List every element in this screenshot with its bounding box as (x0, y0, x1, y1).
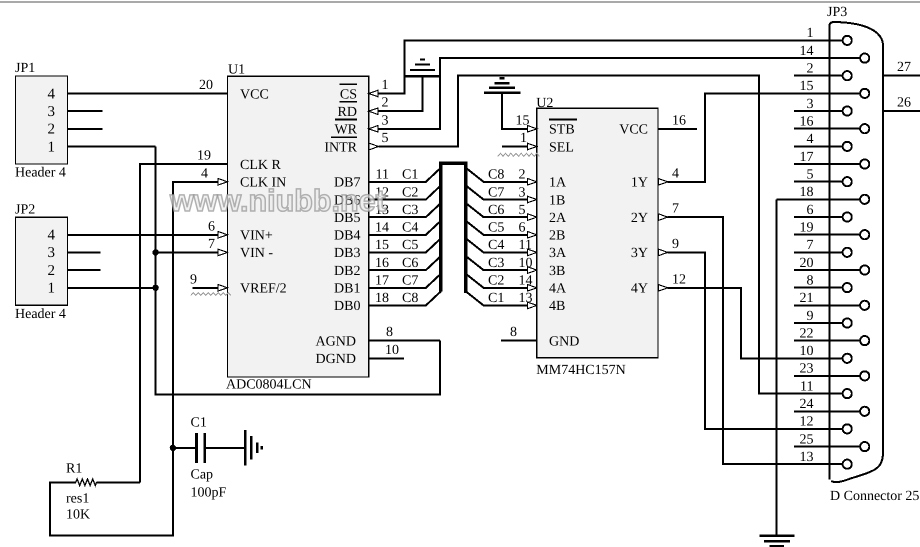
wire JP3 pin 24 stub (794, 410, 861, 412)
input arrow at U2 SEL (527, 143, 537, 150)
svg-text:10K: 10K (66, 508, 90, 523)
wire JP3 pin 21 stub (794, 304, 861, 306)
wire VIN- from junction to U1 pin7 (156, 251, 218, 253)
svg-text:1B: 1B (549, 193, 565, 208)
wire AGND pin8 to analog ground return (369, 340, 441, 342)
wire JP3 pin18 ground vertical down to earth (775, 199, 777, 535)
svg-text:2A: 2A (549, 211, 567, 226)
svg-text:STB: STB (549, 123, 575, 138)
svg-text:12: 12 (800, 415, 814, 430)
wire JP2 pin2 stub (68, 269, 101, 271)
svg-text:2B: 2B (549, 229, 565, 244)
JP3 pin 2 circle (843, 71, 852, 80)
wire C1 left lead (173, 447, 195, 449)
svg-text:DB4: DB4 (334, 229, 360, 244)
svg-text:Header 4: Header 4 (15, 307, 66, 322)
svg-text:3: 3 (48, 104, 56, 120)
svg-text:19: 19 (800, 221, 814, 236)
wire bus to U2 4B pin13 (net C1) (466, 291, 527, 305)
svg-text:VREF/2: VREF/2 (240, 282, 287, 297)
junction dot at C1 tap on CLK IN line (170, 445, 176, 451)
bus (thick) between U1 data pins and U2 inputs (441, 163, 466, 293)
JP3 pin 3 circle (843, 106, 852, 115)
wire WR net: U1 pin3 up and over to JP3 pin14 (378, 58, 860, 129)
wire INTR net: U1 pin5 over to JP3 pin11 (379, 76, 843, 394)
wire bus to U2 1A pin2 (net C8) (466, 168, 527, 182)
wire JP3 pin 25 stub (794, 446, 861, 448)
svg-text:CS: CS (340, 87, 357, 102)
JP3 pin 22 circle (860, 336, 869, 345)
svg-text:C6: C6 (402, 256, 418, 271)
wire JP3 pin 22 stub (794, 340, 861, 342)
svg-text:INTR: INTR (324, 140, 357, 155)
JP3 pin 17 circle (860, 159, 869, 168)
wire U2 GND pin8 stub (501, 340, 537, 342)
svg-text:7: 7 (807, 238, 814, 253)
wire JP3 pin 3 stub (794, 110, 843, 112)
svg-text:13: 13 (800, 450, 814, 465)
IC U1 body (228, 76, 369, 377)
wire CS net: U1 pin1 up and over to JP3 pin1 (378, 40, 843, 93)
input arrow at U2 pin (527, 267, 537, 274)
wire U1 DB7 pin11 to bus (369, 168, 441, 182)
svg-text:C8: C8 (402, 291, 418, 306)
svg-text:7: 7 (208, 237, 215, 252)
svg-text:GND: GND (549, 335, 579, 350)
svg-text:1: 1 (48, 281, 56, 297)
junction dot at VIN- tap (152, 249, 158, 255)
svg-text:27: 27 (897, 60, 911, 75)
svg-text:15: 15 (800, 79, 814, 94)
svg-text:C3: C3 (402, 203, 418, 218)
no-ERC squiggle under SEL (498, 153, 540, 156)
svg-text:6: 6 (208, 219, 215, 234)
IC U2 body (537, 108, 658, 357)
svg-text:C4: C4 (488, 238, 504, 253)
svg-text:9: 9 (190, 272, 197, 287)
resistor R1 zigzag (76, 479, 97, 486)
JP3 pin 5 circle (843, 177, 852, 186)
wire C1 right lead to ground (206, 447, 244, 449)
svg-text:16: 16 (672, 113, 686, 128)
svg-text:VIN+: VIN+ (240, 229, 273, 244)
svg-text:JP2: JP2 (15, 203, 35, 218)
svg-text:C7: C7 (402, 274, 418, 289)
JP3 pin 23 circle (860, 371, 869, 380)
JP3 pin 6 circle (843, 212, 852, 221)
wire JP1 pin4 to U1 VCC pin20 (68, 93, 228, 95)
ground symbol at JP3 pin18 net bottom (759, 536, 794, 547)
svg-text:www.niubb.net: www.niubb.net (169, 184, 386, 218)
svg-text:1: 1 (807, 26, 814, 41)
svg-text:17: 17 (375, 274, 389, 289)
wire bus to U2 1B pin3 (net C7) (466, 185, 527, 199)
svg-text:4: 4 (48, 228, 56, 244)
input arrow at U2 pin (527, 302, 537, 309)
JP3 pin 12 circle (843, 424, 852, 433)
svg-text:15: 15 (375, 238, 389, 253)
svg-text:25: 25 (800, 432, 814, 447)
svg-text:26: 26 (897, 96, 911, 111)
svg-text:5: 5 (382, 131, 389, 146)
input arrow at U2 pin (527, 285, 537, 292)
wire JP1 pin3 stub (68, 110, 103, 112)
svg-text:C5: C5 (488, 221, 504, 236)
wire bus to U2 2B pin6 (net C5) (466, 221, 527, 235)
JP3 pin 8 circle (843, 283, 852, 292)
wire U1 DB5 pin13 to bus (369, 203, 441, 217)
wire U1 DB6 pin12 to bus (369, 185, 441, 199)
junction dot at JP2 pin1 tap (152, 285, 158, 291)
svg-text:4: 4 (48, 86, 56, 102)
svg-text:24: 24 (800, 397, 814, 412)
svg-text:100pF: 100pF (191, 486, 227, 501)
svg-text:Cap: Cap (191, 468, 214, 483)
wire JP3 pin26 (883, 110, 920, 112)
JP3 pin 25 circle (860, 442, 869, 451)
svg-text:JP3: JP3 (827, 5, 847, 20)
wire STB pin15 to ground (502, 93, 527, 129)
svg-text:CLK R: CLK R (240, 158, 282, 173)
watermark (decorative) (169, 184, 386, 218)
wire JP1 pin1 to analog-ground vertical (68, 146, 156, 148)
svg-text:DB3: DB3 (334, 246, 360, 261)
wire U1 DB2 pin16 to bus (369, 256, 441, 270)
wire JP3 pin 19 stub (794, 234, 861, 236)
wire U1 DB1 pin17 to bus (369, 274, 441, 288)
svg-text:2Y: 2Y (631, 211, 648, 226)
svg-text:8: 8 (510, 325, 517, 340)
svg-text:11: 11 (376, 168, 389, 183)
wire U2 2Y pin7 to JP3 (667, 217, 843, 464)
JP3 pin 7 circle (843, 248, 852, 257)
svg-text:16: 16 (800, 115, 814, 130)
svg-text:3Y: 3Y (631, 246, 648, 261)
svg-text:DB1: DB1 (334, 282, 360, 297)
svg-text:4: 4 (807, 132, 814, 147)
svg-text:9: 9 (807, 309, 814, 324)
output arrow at U1 INTR pin (369, 143, 379, 150)
wire U1 CLK IN pin4 vertical to C1 and R1 left end (50, 182, 218, 536)
svg-text:SEL: SEL (549, 140, 574, 155)
svg-text:1: 1 (382, 78, 389, 93)
svg-text:C4: C4 (402, 221, 418, 236)
svg-text:6: 6 (519, 221, 526, 236)
wire JP2 pin3 stub (68, 251, 101, 253)
connector JP3 body outline (830, 22, 884, 482)
svg-text:1Y: 1Y (631, 176, 648, 191)
wire JP3 pin 23 stub (794, 375, 861, 377)
svg-text:1A: 1A (549, 176, 567, 191)
svg-text:C6: C6 (488, 203, 504, 218)
JP3 pin 19 circle (860, 230, 869, 239)
wire JP3 pin 7 stub (794, 251, 843, 253)
input arrow at U1 right pin (369, 108, 379, 115)
svg-text:6: 6 (807, 203, 814, 218)
svg-text:2: 2 (48, 122, 56, 138)
input arrow at U2 STB (527, 126, 537, 133)
top border line (0, 1, 920, 3)
svg-text:3A: 3A (549, 246, 567, 261)
svg-text:1: 1 (520, 131, 527, 146)
wire JP3 pin 9 stub (794, 322, 843, 324)
input arrow at U2 pin (527, 214, 537, 221)
wire VREF/2 stub (193, 287, 218, 289)
svg-text:C5: C5 (402, 238, 418, 253)
svg-text:JP1: JP1 (15, 61, 35, 76)
wire U2 VCC pin16 stub (658, 128, 697, 130)
wire U2 4Y pin12 to JP3 (667, 288, 843, 359)
input arrow at U1 left pin (218, 232, 228, 239)
svg-text:DB2: DB2 (334, 264, 360, 279)
svg-text:5: 5 (807, 168, 814, 183)
svg-text:10: 10 (385, 343, 399, 358)
JP3 pin 24 circle (860, 407, 869, 416)
ground symbol (inverted earth) on STB net (484, 78, 520, 93)
svg-text:8: 8 (807, 273, 814, 288)
svg-text:3: 3 (807, 97, 814, 112)
svg-text:DB0: DB0 (334, 299, 360, 314)
JP3 pin 16 circle (860, 124, 869, 133)
svg-text:3: 3 (382, 113, 389, 128)
svg-text:1: 1 (48, 139, 56, 155)
input arrow at U1 right pin (369, 126, 379, 133)
wire JP3 pin18 to circle (776, 198, 860, 200)
connector JP2 body (16, 217, 68, 305)
wire JP3 pin 4 stub (794, 145, 843, 147)
svg-text:3B: 3B (549, 264, 565, 279)
capacitor C1 plates (197, 433, 205, 463)
svg-text:Header 4: Header 4 (15, 166, 66, 181)
svg-text:C2: C2 (488, 274, 504, 289)
input arrow at U2 pin (527, 179, 537, 186)
svg-text:10: 10 (800, 344, 814, 359)
svg-text:8: 8 (386, 325, 393, 340)
wire R1 right side to CLK R vertical (97, 481, 140, 483)
svg-text:C1: C1 (488, 291, 504, 306)
input arrow at U1 right pin (369, 90, 379, 97)
svg-text:C7: C7 (488, 185, 504, 200)
svg-text:RD: RD (338, 105, 357, 120)
JP3 pin 21 circle (860, 301, 869, 310)
wire DGND pin10 stub (369, 357, 405, 359)
svg-text:VCC: VCC (240, 87, 269, 102)
ground symbol (sideways) at C1 (245, 430, 261, 465)
output arrow at U2 3Y (658, 249, 668, 256)
svg-text:res1: res1 (66, 492, 89, 507)
no-ERC squiggle under VREF/2 (191, 293, 231, 296)
svg-text:4Y: 4Y (631, 282, 648, 297)
svg-text:MM74HC157N: MM74HC157N (536, 363, 625, 378)
wire U1 DB3 pin15 to bus (369, 238, 441, 252)
wire JP3 pin 2 stub (794, 75, 843, 77)
wire JP3 pin 6 stub (794, 216, 843, 218)
svg-text:14: 14 (375, 221, 389, 236)
svg-text:4: 4 (201, 166, 208, 181)
JP3 pin 15 circle (860, 89, 869, 98)
input arrow at U1 left pin (218, 179, 228, 186)
svg-text:5: 5 (519, 203, 526, 218)
svg-text:VCC: VCC (619, 123, 648, 138)
output arrow at U2 1Y (658, 179, 668, 186)
output arrow at U2 4Y (658, 285, 668, 292)
svg-text:16: 16 (375, 256, 389, 271)
svg-text:2: 2 (519, 168, 526, 183)
svg-text:3: 3 (519, 185, 526, 200)
JP3 pin 9 circle (843, 318, 852, 327)
input arrow at U2 pin (527, 232, 537, 239)
connector JP1 body (16, 76, 68, 164)
ground symbol (inverted earth) on RD net (405, 60, 439, 77)
svg-text:4B: 4B (549, 299, 565, 314)
input arrow at U2 pin (527, 196, 537, 203)
svg-text:U1: U1 (228, 62, 245, 77)
wire JP2 pin1 to analog-ground vertical (68, 287, 156, 289)
svg-text:9: 9 (672, 237, 679, 252)
wire JP3 pin 20 stub (794, 269, 861, 271)
svg-text:22: 22 (800, 326, 814, 341)
svg-text:20: 20 (199, 78, 213, 93)
JP3 pin 20 circle (860, 265, 869, 274)
svg-text:AGND: AGND (316, 335, 356, 350)
svg-text:18: 18 (375, 291, 389, 306)
svg-text:14: 14 (800, 44, 814, 59)
svg-text:D Connector 25: D Connector 25 (830, 489, 919, 504)
wire JP3 pin27 (883, 75, 920, 77)
svg-text:2: 2 (807, 62, 814, 77)
svg-text:C2: C2 (402, 185, 418, 200)
JP3 pin 14 circle (860, 54, 869, 63)
input arrow at U1 left pin (218, 285, 228, 292)
input arrow at U2 pin (527, 249, 537, 256)
svg-text:C3: C3 (488, 256, 504, 271)
JP3 pin 4 circle (843, 142, 852, 151)
wire bus to U2 3B pin10 (net C3) (466, 256, 527, 270)
wire JP3 pin 17 stub (794, 163, 861, 165)
svg-text:C1: C1 (402, 168, 418, 183)
wire bus to U2 4A pin14 (net C2) (466, 274, 527, 288)
wire SEL pin1 stub (502, 146, 527, 148)
wire analog ground vertical (JP1 pin1 down to AGND return) (156, 147, 441, 395)
svg-text:4: 4 (672, 166, 679, 181)
wire U1 CLK R pin19 to R1 right end (140, 164, 228, 482)
svg-text:11: 11 (800, 379, 813, 394)
output arrow at U2 2Y (658, 214, 668, 221)
JP3 pin 13 circle (843, 460, 852, 469)
svg-text:C8: C8 (488, 168, 504, 183)
JP3 pin 18 circle (860, 195, 869, 204)
wire RD net: U1 pin2 to ground stem (378, 76, 422, 111)
svg-text:DGND: DGND (316, 352, 356, 367)
svg-text:17: 17 (800, 150, 814, 165)
svg-text:2: 2 (48, 263, 56, 279)
input arrow at U1 left pin (218, 249, 228, 256)
wire bus to U2 2A pin5 (net C6) (466, 203, 527, 217)
wire JP3 pin 8 stub (794, 287, 843, 289)
svg-text:R1: R1 (66, 462, 82, 477)
wire bus to U2 3A pin11 (net C4) (466, 238, 527, 252)
wire U2 1Y pin4 to JP3 (667, 93, 860, 181)
wire U2 3Y pin9 to JP3 (667, 252, 843, 429)
svg-text:21: 21 (800, 291, 814, 306)
svg-text:4A: 4A (549, 282, 567, 297)
svg-text:3: 3 (48, 245, 56, 261)
wire JP3 pin 5 stub (794, 181, 843, 183)
JP3 pin 11 circle (843, 389, 852, 398)
JP3 pin 10 circle (843, 354, 852, 363)
JP3 pin 1 circle (843, 36, 852, 45)
svg-text:ADC0804LCN: ADC0804LCN (226, 378, 312, 393)
wire JP1 pin2 stub (68, 128, 103, 130)
svg-text:19: 19 (197, 149, 211, 164)
svg-text:18: 18 (800, 185, 814, 200)
svg-text:7: 7 (672, 202, 679, 217)
wire JP2 pin4 to U1 VIN+ (68, 234, 218, 236)
svg-text:VIN -: VIN - (240, 246, 273, 261)
wire U1 DB0 pin18 to bus (369, 291, 441, 305)
svg-text:2: 2 (382, 96, 389, 111)
svg-text:20: 20 (800, 256, 814, 271)
svg-text:12: 12 (672, 272, 686, 287)
svg-text:23: 23 (800, 362, 814, 377)
svg-text:C1: C1 (191, 416, 207, 431)
wire U1 DB4 pin14 to bus (369, 221, 441, 235)
svg-text:WR: WR (334, 123, 357, 138)
wire JP3 pin 16 stub (794, 128, 861, 130)
